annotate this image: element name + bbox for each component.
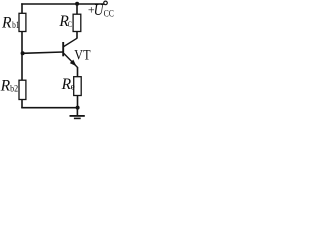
wire base (junction to transistor base) [23, 52, 63, 53]
resistor Re [74, 77, 82, 96]
wire emitter vertical (emitter to Re) [77, 67, 79, 77]
ground bar 2 [74, 117, 81, 119]
label Re [61, 76, 75, 93]
ground stem [76, 108, 78, 116]
node top rail junction dot [75, 2, 79, 6]
wire Rc top (rail to Rc) [76, 4, 78, 15]
svg-text:CC: CC [104, 9, 114, 19]
wire top rail (+Ucc rail) [21, 3, 103, 5]
label Rb2 [0, 78, 18, 95]
node base junction dot [21, 51, 25, 55]
terminal +Ucc circle [104, 1, 108, 5]
svg-text:b1: b1 [12, 21, 20, 31]
svg-text:VT: VT [74, 47, 90, 63]
resistor Rb2 [19, 80, 26, 99]
label Rc [58, 13, 72, 30]
wire left branch upper (rail to Rb1) [21, 3, 23, 14]
wire left branch middle (Rb1 to Rb2) [21, 32, 23, 81]
transistor VT base bar [62, 42, 64, 56]
label +Ucc [88, 2, 114, 19]
ground bar 1 [70, 115, 85, 117]
wire bottom rail [21, 107, 78, 109]
svg-text:e: e [71, 83, 75, 93]
node bottom rail junction dot [76, 106, 80, 110]
svg-text:b2: b2 [10, 85, 18, 95]
svg-text:R: R [0, 78, 11, 95]
label Rb1 [1, 15, 20, 32]
resistor Rc [73, 14, 81, 31]
transistor VT emitter diagonal [64, 53, 78, 67]
wire collector vertical (Rc to collector) [76, 32, 78, 39]
resistor Rb1 [19, 13, 26, 31]
svg-text:C: C [68, 20, 72, 29]
wire left branch lower (Rb2 to bottom rail) [21, 100, 23, 109]
svg-text:R: R [1, 15, 12, 32]
transistor VT emitter arrowhead [70, 60, 77, 67]
transistor VT collector diagonal [64, 38, 77, 46]
wire Re bottom (Re to bottom rail) [77, 96, 79, 109]
